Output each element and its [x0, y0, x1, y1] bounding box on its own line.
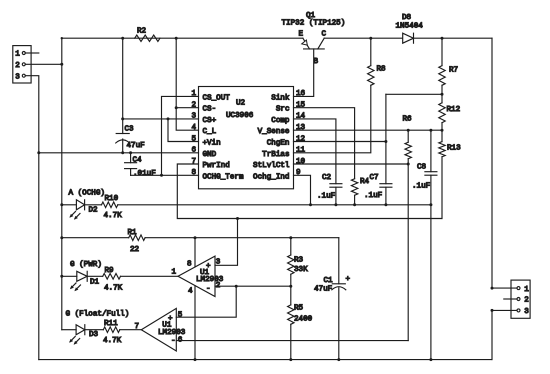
wire J1 pin3 down to ground rail [25, 76, 39, 360]
resistor R13 [439, 142, 461, 157]
wire J1 pin1 stub [25, 52, 39, 54]
op-amp U2 UC3906 box [199, 87, 294, 189]
resistor R7 [439, 38, 458, 85]
transistor Q1 [282, 12, 346, 66]
op-amp U1 comparator A [172, 256, 224, 296]
svg-text:9: 9 [296, 169, 301, 177]
svg-text:47uF: 47uF [127, 142, 146, 150]
wire comp2 -in to R6 bottom [176, 340, 408, 342]
wire pin3 CS+ [121, 117, 198, 120]
svg-text:R1: R1 [128, 229, 138, 237]
wire top rail right [324, 37, 403, 39]
svg-text:5: 5 [191, 135, 196, 143]
resistor R10 [102, 195, 123, 220]
svg-text:+: + [168, 315, 173, 323]
svg-text:2: 2 [15, 62, 20, 70]
wire C2 bottom [334, 187, 337, 206]
label G (Float/Full) [66, 310, 130, 318]
wire comp1 +in from PwrInd line [215, 219, 238, 266]
svg-text:12: 12 [296, 135, 306, 143]
svg-text:.1uF: .1uF [364, 192, 383, 200]
wire pin10 StLvlCtl [294, 163, 410, 166]
svg-text:D1: D1 [90, 278, 100, 286]
LED D1 [70, 271, 100, 291]
svg-text:C7: C7 [370, 174, 379, 182]
wire pin7 PwrInd route [177, 164, 442, 220]
node R8 top [369, 37, 372, 40]
svg-text:1: 1 [15, 51, 20, 59]
node R2 right [175, 37, 178, 40]
svg-text:R6: R6 [403, 116, 413, 124]
svg-text:U2: U2 [236, 100, 246, 108]
wire bottom rail [39, 359, 492, 361]
wire CS+ to pin5 +Vin [168, 119, 199, 142]
capacitor C8 [412, 130, 437, 190]
wire pin12 ChgEn [294, 140, 388, 143]
svg-text:-: - [206, 286, 211, 294]
svg-text:15: 15 [296, 102, 306, 110]
resistor R12 [439, 103, 461, 123]
capacitor C3 [116, 38, 145, 153]
svg-text:R7: R7 [449, 67, 458, 75]
svg-text:R11: R11 [104, 320, 118, 328]
wire R10 to pin9 and cap grounds [118, 204, 431, 206]
svg-text:6: 6 [191, 147, 196, 155]
wire R3 to junction [290, 274, 292, 286]
svg-text:1: 1 [172, 269, 177, 277]
resistor R4 [351, 178, 369, 195]
wire right rail down [491, 38, 493, 288]
svg-text:ChgEn: ChgEn [267, 140, 290, 148]
svg-text:D3: D3 [89, 331, 99, 339]
svg-text:4.7K: 4.7K [104, 284, 123, 292]
svg-text:V_Sense: V_Sense [258, 128, 290, 136]
resistor R9 [103, 267, 123, 293]
svg-text:10: 10 [296, 158, 306, 166]
LED D3 [69, 325, 98, 345]
capacitor C7 [364, 174, 392, 200]
wire pin14 Comp to C2 [294, 119, 336, 184]
wire J1 pin2 to left rail [25, 63, 63, 66]
wire J2 pin2 stub [504, 298, 517, 300]
svg-text:3: 3 [191, 113, 196, 121]
svg-text:R13: R13 [447, 145, 461, 153]
svg-text:-: - [171, 338, 176, 346]
resistor R1 [128, 229, 146, 254]
svg-text:R8: R8 [377, 66, 387, 74]
wire top rail left [61, 37, 303, 39]
svg-text:8: 8 [191, 169, 196, 177]
svg-text:R12: R12 [447, 106, 461, 114]
resistor R2 [135, 28, 160, 42]
capacitor C2 [317, 174, 342, 201]
svg-text:16: 16 [296, 90, 306, 98]
wire R1 left [60, 236, 128, 239]
wire D2 to R10 [85, 204, 102, 206]
wire J2 pin1 to right rail [491, 287, 518, 290]
svg-text:C_L: C_L [203, 128, 217, 136]
resistor R6 [403, 116, 413, 159]
wire R8 to pin11 TrBias [294, 85, 371, 153]
wire pin1 CS_OUT [160, 96, 199, 176]
svg-text:1: 1 [191, 90, 196, 98]
node R7 top [441, 37, 444, 40]
svg-text:G (Float/Full): G (Float/Full) [66, 310, 130, 318]
svg-text:TrBias: TrBias [262, 151, 289, 159]
svg-text:LM2903: LM2903 [196, 276, 224, 284]
svg-text:PwrInd: PwrInd [203, 162, 230, 170]
svg-text:2: 2 [524, 297, 529, 305]
wire R4 bottom [353, 195, 356, 206]
wire D1 to left rail [60, 275, 77, 278]
wire pin13 V_Sense [294, 129, 443, 132]
wire R7bot to C7 branch [386, 94, 442, 183]
svg-text:.01uF: .01uF [133, 170, 156, 178]
svg-text:TIP32 (TIP125): TIP32 (TIP125) [282, 20, 346, 28]
svg-text:R9: R9 [105, 267, 115, 275]
svg-text:2400: 2400 [294, 315, 313, 323]
svg-text:.1uF: .1uF [317, 193, 336, 201]
resistor R5 [288, 286, 313, 324]
wire comp1 -in to divider [215, 285, 292, 288]
wire Q1 base to pin16 [294, 49, 314, 97]
svg-text:.1uF: .1uF [412, 183, 431, 191]
svg-text:Comp: Comp [271, 117, 290, 125]
wire C1 bottom to ground rail [337, 288, 340, 361]
wire J2 pin3 to ground rail [491, 309, 518, 360]
resistor R11 [103, 320, 122, 345]
wire R1 right to C1 [145, 236, 339, 239]
capacitor C4 [125, 153, 157, 178]
svg-text:1: 1 [524, 286, 529, 294]
connector J1 [13, 46, 31, 83]
op-amp U1 comparator B [135, 308, 186, 351]
label A (OCHG) [69, 189, 105, 197]
svg-text:R3: R3 [294, 257, 304, 265]
svg-text:D8: D8 [402, 14, 412, 22]
U2 pin labels [191, 90, 305, 181]
svg-text:OCHG_Term: OCHG_Term [203, 173, 244, 181]
wire C4 to pin8 OCHG_Term [131, 174, 199, 176]
wire R12 to R13 [441, 123, 444, 142]
wire comp1 gnd pin4 stub [194, 286, 197, 361]
svg-text:C2: C2 [322, 174, 332, 182]
LED D2 [69, 200, 98, 220]
svg-text:R5: R5 [294, 305, 304, 313]
wire R13 bottom to PwrInd line [441, 157, 443, 219]
svg-text:C1: C1 [324, 277, 334, 285]
svg-text:5: 5 [178, 311, 183, 319]
wire D8 to corner [414, 37, 493, 39]
diode D8 [396, 14, 424, 43]
wire indicator line [60, 203, 76, 206]
svg-text:14: 14 [296, 113, 306, 121]
svg-text:Ochg_Ind: Ochg_Ind [253, 173, 289, 181]
svg-text:UC3906: UC3906 [226, 112, 254, 120]
wire R5 bottom to ground rail [289, 324, 292, 361]
label G (PWR) [70, 261, 102, 269]
svg-text:4: 4 [188, 288, 193, 296]
svg-text:47uF: 47uF [314, 286, 333, 294]
wire comp2 out to R11 [120, 329, 142, 331]
wire C7 bottom [384, 187, 387, 206]
svg-text:CS+: CS+ [203, 117, 217, 125]
svg-text:StLvlCtl: StLvlCtl [253, 162, 290, 170]
capacitor C1 [314, 238, 351, 294]
svg-text:C: C [322, 31, 327, 39]
svg-text:LM2903: LM2903 [158, 329, 186, 337]
svg-text:R10: R10 [105, 195, 119, 203]
wire C8 bottom to ground rail [429, 175, 432, 361]
svg-text:C4: C4 [133, 157, 143, 165]
svg-text:4.7K: 4.7K [104, 212, 123, 220]
resistor R8 [368, 38, 386, 85]
svg-text:+Vin: +Vin [203, 140, 221, 148]
svg-text:CS-: CS- [203, 106, 217, 114]
wire left rail vertical [61, 38, 63, 330]
svg-text:11: 11 [296, 147, 306, 155]
svg-text:4.7K: 4.7K [103, 337, 122, 345]
wire R6 bottom down [407, 159, 409, 341]
wire comp1 out to R9 [121, 275, 179, 277]
connector J2 [511, 280, 530, 318]
svg-text:A (OCHG): A (OCHG) [69, 189, 105, 197]
wire comp1 V+ pin8 stub [194, 238, 196, 267]
svg-text:1N5404: 1N5404 [396, 23, 424, 31]
wire comp1- branch to comp2 +in [176, 286, 236, 317]
svg-text:7: 7 [191, 158, 196, 166]
svg-text:2: 2 [191, 102, 196, 110]
resistor R3 [288, 238, 309, 275]
wire pin9 Ochg_Ind [294, 175, 313, 206]
wire pin15 Src to R4 [294, 108, 355, 179]
svg-text:3: 3 [15, 73, 20, 81]
svg-text:Src: Src [276, 106, 290, 114]
svg-text:CS_OUT: CS_OUT [203, 94, 231, 102]
svg-text:D2: D2 [89, 206, 99, 214]
wire GND line pin6 [37, 151, 198, 154]
wire R9 to D1 [87, 275, 103, 277]
svg-text:4: 4 [191, 124, 196, 132]
svg-text:R2: R2 [137, 28, 147, 36]
svg-text:Sink: Sink [271, 94, 290, 102]
svg-text:33K: 33K [294, 266, 308, 274]
svg-text:13: 13 [296, 124, 306, 132]
wire R7 bottom [441, 85, 444, 103]
svg-text:G (PWR): G (PWR) [70, 261, 102, 269]
svg-text:22: 22 [130, 246, 140, 254]
svg-text:C8: C8 [417, 164, 427, 172]
svg-text:+: + [206, 263, 211, 271]
svg-text:+: + [346, 276, 351, 284]
svg-text:C3: C3 [125, 126, 135, 134]
node C3 top [121, 37, 124, 40]
svg-text:E: E [299, 31, 304, 39]
svg-text:8: 8 [187, 261, 192, 269]
svg-text:GND: GND [203, 151, 217, 159]
wire R2right to pin2 and pin4 [175, 38, 199, 130]
svg-text:3: 3 [524, 308, 529, 316]
svg-text:R4: R4 [360, 178, 370, 186]
wire R11 to D3 [85, 329, 103, 331]
wire D3 to left rail [62, 329, 76, 331]
